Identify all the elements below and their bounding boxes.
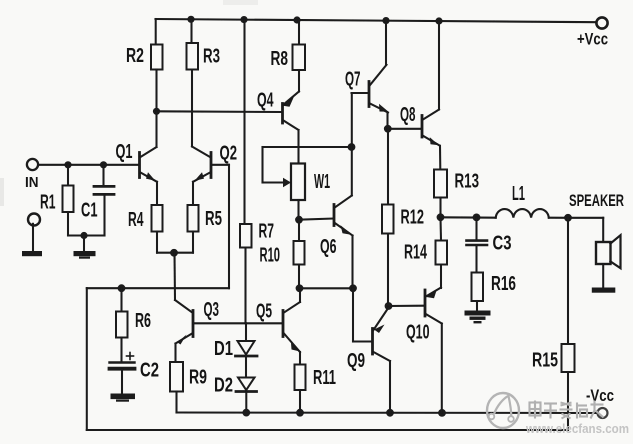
- svg-text:R13: R13: [455, 171, 480, 193]
- resistor R14: [436, 241, 448, 265]
- svg-text:R15: R15: [532, 350, 558, 372]
- -Vcc terminal: [598, 408, 608, 418]
- svg-text:C3: C3: [493, 233, 512, 255]
- node rail-Q8: [435, 17, 442, 24]
- svg-text:C1: C1: [81, 200, 98, 222]
- wire R3 to Q2 collector: [191, 70, 193, 147]
- diode D1: [236, 323, 258, 356]
- transistor Q6: [334, 196, 353, 236]
- wire Q3 Q5 base line: [194, 322, 282, 324]
- svg-text:R16: R16: [491, 273, 516, 295]
- transistor Q8: [422, 110, 440, 146]
- wire D2 to rail: [245, 392, 247, 413]
- wire Q2 emitter to R5: [192, 182, 194, 205]
- svg-text:R11: R11: [313, 367, 336, 389]
- resistor R9: [170, 362, 183, 392]
- wire R14 top: [439, 217, 442, 240]
- wire Q10 collector to R14: [440, 265, 442, 289]
- wire IN to Q1 base: [38, 164, 138, 166]
- terminal IN bottom: [28, 214, 40, 226]
- speaker: [596, 235, 621, 268]
- wire R3 top: [190, 19, 192, 43]
- wire feedback left vertical: [86, 288, 88, 430]
- node C3 top: [473, 214, 481, 222]
- wire speaker to ground: [602, 264, 604, 288]
- wire to ground stem: [83, 236, 85, 252]
- svg-text:R8: R8: [271, 48, 289, 70]
- wire R15 top: [567, 218, 569, 344]
- svg-text:R4: R4: [128, 209, 144, 231]
- svg-text:C2: C2: [140, 360, 159, 382]
- node R10 bottom / Q5 collector: [296, 284, 304, 292]
- svg-text:R5: R5: [205, 208, 222, 230]
- wire Q4 base line: [157, 110, 282, 113]
- wire Q8 collector to rail: [438, 21, 440, 110]
- wire speaker drop: [602, 218, 604, 242]
- node R6 top: [118, 284, 126, 292]
- wire Q7 emitter down: [386, 113, 388, 129]
- watermark logo: [487, 393, 519, 428]
- wire R12 bottom: [387, 234, 389, 307]
- node R1-C1 ground: [80, 232, 87, 239]
- node rail-Q9: [386, 409, 394, 417]
- node rail-Q7: [382, 17, 389, 24]
- resistor R11: [295, 365, 306, 391]
- wire long vertical rail to R7: [243, 20, 245, 224]
- wire feedback bottom: [87, 429, 568, 431]
- wire Q4 collector to W1: [297, 130, 299, 164]
- ground (speaker): [592, 288, 616, 293]
- wire Q5 emitter to R11: [299, 352, 301, 365]
- wire speaker node to speaker: [568, 217, 603, 219]
- wire Q9 base horizontal: [353, 340, 371, 342]
- node C1 top: [100, 161, 107, 168]
- wire R12 top: [387, 129, 389, 205]
- svg-text:Q9: Q9: [347, 350, 365, 372]
- wire R16 bottom: [476, 301, 478, 311]
- wire R4 bottom: [156, 232, 158, 253]
- terminal IN top: [27, 159, 38, 170]
- wire Q3 emitter to R9: [174, 344, 176, 363]
- node W1-R10-Q6: [295, 216, 303, 224]
- potentiometer W1: [263, 147, 352, 200]
- transistor Q7: [352, 65, 389, 113]
- svg-text:IN: IN: [25, 174, 39, 191]
- transistor Q3: [176, 311, 194, 345]
- svg-text:+Vcc: +Vcc: [577, 30, 608, 49]
- wire feedback horizontal: [87, 287, 229, 289]
- transistor Q4: [283, 92, 300, 131]
- resistor R15: [562, 344, 575, 372]
- node rail-Q10: [438, 409, 446, 417]
- scan smudge left edge: [0, 178, 4, 206]
- wire R13 bottom: [439, 198, 441, 218]
- wire R2 bottom: [155, 70, 157, 112]
- node output (R13/R14/L1): [437, 213, 445, 221]
- ground (R16): [465, 311, 491, 324]
- svg-text:R3: R3: [203, 46, 220, 68]
- -Vcc rail: [177, 411, 599, 414]
- svg-text:Q8: Q8: [400, 104, 416, 126]
- svg-text:R9: R9: [189, 367, 207, 389]
- wire L1 to speaker node: [549, 217, 568, 219]
- wire tail bar: [157, 252, 193, 254]
- wire R7 chain down: [244, 248, 246, 324]
- resistor R2: [151, 45, 163, 70]
- svg-text:Q10: Q10: [406, 322, 430, 344]
- wire R9 bottom: [175, 392, 177, 413]
- svg-text:Q3: Q3: [204, 299, 220, 321]
- wire Q9 collector to rail: [389, 361, 391, 413]
- resistor R8: [293, 20, 306, 92]
- svg-text:Q2: Q2: [220, 143, 238, 165]
- resistor R4: [152, 205, 163, 232]
- inductor L1: [496, 209, 549, 218]
- scan smudge top: [223, 0, 258, 5]
- wire Q2 base to feedback: [213, 164, 230, 166]
- wire Q6 emitter down: [351, 236, 353, 289]
- node A (Q1 collector / Q4 base line): [153, 108, 160, 115]
- transistor Q9: [373, 308, 391, 362]
- node Q7 emitter / Q8 base / R12: [384, 125, 392, 133]
- +Vcc terminal: [596, 17, 607, 28]
- wire R5 bottom: [192, 232, 194, 253]
- svg-text:Q6: Q6: [320, 236, 337, 258]
- svg-text:R2: R2: [126, 45, 144, 67]
- svg-text:R10: R10: [260, 245, 281, 267]
- diode D2: [236, 378, 257, 392]
- svg-text:R12: R12: [401, 207, 425, 229]
- wire R11 bottom: [299, 390, 301, 413]
- resistor R6: [116, 288, 128, 362]
- svg-text:D2: D2: [214, 375, 233, 397]
- svg-text:-Vcc: -Vcc: [586, 386, 614, 405]
- node rail-D2: [242, 409, 250, 417]
- wire Q1 emitter to R4: [156, 182, 158, 205]
- watermark hanzi: [530, 401, 604, 419]
- resistor R13: [434, 170, 447, 198]
- resistor R7: [240, 224, 252, 248]
- node W1 wiper to Q7 base line: [348, 143, 356, 151]
- svg-text:R14: R14: [404, 242, 428, 264]
- svg-text:Q7: Q7: [345, 69, 361, 91]
- svg-text:SPEAKER: SPEAKER: [569, 191, 624, 210]
- wire IN bottom stem: [32, 224, 34, 252]
- resistor R16: [472, 273, 484, 302]
- node tail junction: [170, 249, 178, 257]
- svg-text:R7: R7: [259, 221, 275, 243]
- resistor R12: [382, 205, 394, 234]
- svg-text:D1: D1: [214, 338, 233, 360]
- wire Q10 base: [389, 305, 424, 307]
- capacitor C2: [110, 353, 135, 394]
- resistor R10: [294, 220, 305, 289]
- wire R1 C1 bottom join: [68, 234, 105, 236]
- wire output to C3 node: [441, 216, 496, 218]
- svg-text:L1: L1: [512, 183, 525, 205]
- transistor Q2: [192, 147, 211, 182]
- wire Q7 collector to rail: [385, 21, 387, 65]
- transistor Q1: [140, 111, 158, 182]
- wire Q6 collector / Q7 base vertical: [351, 93, 353, 196]
- svg-text:W1: W1: [314, 171, 330, 193]
- +Vcc rail: [156, 19, 597, 22]
- wire D1 to D2: [245, 356, 247, 378]
- wire Q10 emitter to rail: [441, 324, 443, 413]
- wire Q8 base: [388, 128, 420, 130]
- svg-text:Q1: Q1: [116, 141, 133, 163]
- node speaker/R15: [564, 214, 572, 222]
- node rail-R3: [187, 16, 194, 23]
- node rail-R11: [296, 409, 304, 417]
- resistor R1: [63, 165, 74, 236]
- wire R15 bottom to feedback: [567, 372, 569, 430]
- wire tail to Q3 collector: [175, 253, 192, 312]
- transistor Q10: [425, 288, 442, 324]
- capacitor C1: [94, 165, 114, 236]
- node rail-R8: [293, 16, 300, 23]
- resistor R5: [188, 205, 199, 232]
- wire R2 top: [155, 19, 157, 45]
- ground (C2): [111, 394, 136, 402]
- wire W1 bottom node: [297, 200, 299, 220]
- svg-text:R6: R6: [135, 310, 151, 332]
- node rail-R7: [240, 16, 247, 23]
- svg-text:Q5: Q5: [256, 301, 272, 323]
- wire Q6 base: [299, 219, 333, 220]
- svg-text:www.elecfans.com: www.elecfans.com: [525, 421, 629, 436]
- node Q6 emitter / Q9 base: [349, 284, 357, 292]
- ground (R1/C1): [74, 251, 96, 259]
- wire Q8 emitter to R13: [439, 146, 441, 170]
- resistor R3: [187, 43, 199, 70]
- node R1 top: [64, 161, 71, 168]
- wire feedback vertical from Q2 base: [228, 165, 230, 288]
- capacitor C3: [467, 217, 488, 272]
- wire R10 bottom to Q6 emitter line: [300, 287, 354, 289]
- svg-text:Q4: Q4: [257, 90, 274, 112]
- svg-text:R1: R1: [40, 192, 56, 214]
- wire Q9 base vertical: [352, 288, 354, 341]
- transistor Q5: [283, 288, 300, 352]
- node R12 / Q9 / Q10 base: [385, 302, 393, 310]
- ground (IN): [22, 251, 42, 256]
